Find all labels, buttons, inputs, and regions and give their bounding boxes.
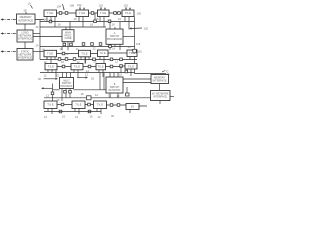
junction below BC	[64, 90, 67, 93]
memory interface block L1	[17, 14, 36, 24]
svg-text:NETWORK: NETWORK	[108, 89, 121, 92]
horizontal bus y72.5	[40, 72, 135, 74]
svg-text:20: 20	[91, 77, 94, 81]
wire B2 top stubs	[110, 73, 118, 78]
svg-text:TILE: TILE	[79, 11, 85, 15]
junction Jm1	[63, 43, 66, 46]
switch junction J1c	[91, 12, 94, 15]
tile T34	[127, 50, 137, 57]
junction below M2	[109, 45, 112, 48]
wire R2 right	[170, 96, 174, 98]
svg-text:12: 12	[44, 74, 47, 78]
svg-text:TILE: TILE	[47, 52, 53, 56]
horizontal bus y21.5	[40, 21, 135, 23]
switch processor block BC	[60, 78, 74, 89]
processor block M1	[62, 30, 74, 42]
wire off-chip left to L2	[1, 32, 18, 34]
svg-text:INTERFACE: INTERFACE	[153, 79, 167, 82]
junction Jr3c	[73, 58, 76, 61]
label 106 top	[70, 4, 75, 8]
bus junction c	[108, 20, 111, 23]
wire L2 right to M1	[33, 36, 62, 38]
wire row3 links	[57, 52, 128, 55]
tile T11	[44, 10, 57, 17]
io device block T64	[126, 104, 139, 110]
tile T61	[44, 101, 57, 109]
svg-text:TILE: TILE	[48, 65, 54, 69]
svg-text:18: 18	[81, 92, 84, 96]
label 24 left column	[36, 44, 39, 48]
junction Jr3d	[93, 58, 96, 61]
svg-text:26: 26	[36, 25, 39, 29]
svg-text:TILE: TILE	[47, 11, 53, 15]
svg-text:12: 12	[75, 115, 78, 119]
wire row4 links	[57, 65, 125, 68]
junction row6 c	[110, 104, 113, 107]
bottom bus y111.5	[44, 111, 101, 113]
bus junction a	[49, 20, 52, 23]
svg-text:INTERFACE: INTERFACE	[18, 57, 32, 60]
horizontal bus y46.5	[40, 46, 135, 48]
node 10 label top	[28, 2, 33, 9]
svg-text:102: 102	[124, 4, 129, 8]
junction right col J	[133, 49, 142, 53]
svg-text:16: 16	[90, 115, 93, 119]
wire BC top	[63, 73, 71, 78]
svg-text:100: 100	[137, 12, 142, 16]
svg-text:12: 12	[95, 93, 98, 97]
small box above T63	[87, 96, 92, 100]
tile T13	[98, 10, 110, 17]
junction below row6 a	[59, 110, 62, 113]
svg-text:16: 16	[44, 18, 47, 22]
tile T31	[44, 50, 57, 57]
svg-text:106: 106	[70, 4, 75, 8]
stubs row4 down	[48, 69, 131, 78]
svg-text:INTERFACE: INTERFACE	[18, 19, 33, 23]
wire L1 bottom to L2 top	[24, 24, 26, 30]
svg-text:12: 12	[46, 94, 49, 98]
load network interface block L2	[17, 30, 33, 42]
bus junction b	[94, 20, 97, 23]
label 100 right of T14	[137, 12, 142, 16]
svg-text:INTERFACE: INTERFACE	[18, 38, 32, 41]
io network interface block R2	[151, 91, 171, 101]
svg-text:28: 28	[24, 9, 27, 13]
switch junction J1a	[59, 12, 62, 15]
svg-text:72: 72	[166, 70, 169, 74]
wire row1 links	[57, 12, 123, 14]
svg-text:16: 16	[118, 17, 121, 21]
wire M2 right	[123, 36, 135, 38]
svg-text:16: 16	[74, 17, 77, 21]
svg-text:18: 18	[58, 23, 61, 27]
label 28 above L1	[24, 9, 27, 15]
svg-text:12: 12	[98, 115, 101, 119]
label 72 leader	[162, 70, 169, 74]
label 14 under M2	[128, 45, 131, 49]
label 104 top	[57, 5, 62, 9]
svg-text:30: 30	[38, 77, 41, 81]
arrow into bus from left	[41, 87, 53, 89]
junction Jr3e	[110, 58, 113, 61]
svg-text:TILE: TILE	[47, 103, 53, 107]
arrow into mesh top	[63, 4, 65, 10]
wire B2 bottom	[110, 93, 118, 98]
labels band y72-78	[44, 73, 123, 81]
horizontal bus y27	[40, 26, 106, 28]
horizontal bus y97.8	[44, 97, 151, 99]
stub above T13	[99, 4, 107, 11]
labels band y58-62	[44, 60, 119, 65]
svg-text:22: 22	[56, 74, 59, 78]
wires below M1	[64, 42, 72, 47]
labels band y47-50	[42, 47, 116, 52]
junction below BC b	[69, 90, 72, 93]
arrow label right edge y27	[129, 27, 148, 31]
wire L2 bottom to L3 top	[24, 42, 26, 49]
junction row6 b	[88, 103, 91, 106]
svg-text:TILE: TILE	[75, 103, 81, 107]
wires M2 bottom	[110, 44, 120, 50]
wire R1 R2	[159, 84, 161, 91]
junction below row6 b	[88, 110, 91, 113]
switch junction J1b	[65, 12, 68, 15]
svg-text:12: 12	[44, 115, 47, 119]
svg-text:18: 18	[112, 23, 115, 27]
svg-text:TILE: TILE	[125, 11, 131, 15]
switch processor block M2	[106, 29, 123, 44]
junction row3 mid	[62, 52, 69, 56]
junction Jr4d	[120, 65, 123, 68]
switch junction J1d	[114, 12, 117, 15]
svg-text:12: 12	[93, 47, 96, 51]
svg-text:14: 14	[112, 47, 115, 51]
wire M2 top stubs	[110, 22, 120, 30]
svg-text:INTERFACE: INTERFACE	[153, 96, 167, 99]
horizontal bus y89.8	[53, 89, 107, 91]
svg-text:118: 118	[136, 42, 141, 46]
labels bottom edge	[44, 114, 114, 119]
horizontal bus y59.5	[40, 59, 137, 61]
svg-text:PROCESSOR: PROCESSOR	[107, 38, 123, 41]
label 30 with arrow into BC	[38, 77, 58, 81]
svg-text:TILE: TILE	[81, 52, 87, 56]
junction row6 d	[117, 104, 120, 107]
svg-text:16: 16	[62, 115, 65, 119]
svg-text:102: 102	[99, 4, 104, 8]
arrow BC to B2	[77, 76, 88, 78]
label 26 left column	[36, 25, 39, 29]
svg-text:16: 16	[94, 60, 97, 64]
junction below T44	[125, 70, 128, 73]
wire off-chip left to L3	[1, 50, 18, 52]
labels band y93-100	[46, 92, 120, 102]
svg-text:TILE: TILE	[74, 65, 80, 69]
wire L2 right to mesh	[33, 33, 40, 35]
wire L3 right to mesh	[33, 51, 44, 53]
wire right bus y74 to label 70	[135, 72, 170, 76]
tile T33	[98, 50, 109, 57]
junction Jr3f	[120, 58, 123, 61]
svg-text:16: 16	[66, 52, 69, 56]
tile T43	[96, 64, 106, 70]
svg-text:TILE: TILE	[99, 51, 105, 55]
stub above T12	[77, 3, 85, 10]
wire off-chip left to L1	[1, 18, 17, 20]
svg-text:22: 22	[119, 73, 122, 77]
wire R2 bottom	[159, 101, 161, 105]
junction row6 a	[61, 103, 64, 106]
wire L1 right to mesh	[35, 20, 44, 60]
svg-text:12: 12	[85, 73, 88, 77]
junction Jr4a	[62, 65, 65, 68]
svg-text:116: 116	[138, 50, 143, 54]
tile T32	[79, 50, 91, 57]
svg-text:12: 12	[60, 47, 63, 51]
vertical line x52.5 down	[52, 84, 54, 102]
label 12 near T42	[86, 69, 89, 73]
wire extra verticals band A	[47, 13, 121, 90]
junction left BC	[51, 92, 54, 95]
tile T12	[76, 10, 89, 17]
svg-text:24: 24	[36, 44, 39, 48]
tile T14	[122, 10, 134, 17]
svg-text:PROCESS: PROCESS	[61, 85, 73, 88]
switch junction J1e	[118, 12, 121, 15]
io switch network block B2	[106, 77, 123, 93]
wire row6 links	[57, 105, 147, 107]
tile T62	[72, 101, 85, 109]
svg-text:10: 10	[28, 2, 31, 6]
svg-text:TILE: TILE	[97, 103, 103, 107]
tile T63	[94, 101, 107, 109]
svg-text:18: 18	[90, 23, 93, 27]
svg-text:16: 16	[61, 60, 64, 64]
stubs row6 down	[48, 109, 130, 115]
svg-text:TILE: TILE	[100, 11, 106, 15]
wire B2 right to R1 b	[123, 82, 151, 84]
wire BC bottom	[62, 89, 70, 102]
stubs row3 down	[47, 57, 130, 64]
junction Jr4c	[110, 65, 113, 68]
label 118 right	[136, 42, 141, 46]
stub above T14	[124, 4, 132, 11]
junction Jr3a	[58, 58, 61, 61]
memory interface block R1	[151, 75, 169, 84]
junction Jm4	[91, 43, 94, 46]
tile T42	[71, 64, 83, 70]
svg-text:TILE: TILE	[97, 65, 103, 69]
svg-text:CORE: CORE	[65, 37, 72, 40]
svg-text:TILE: TILE	[128, 65, 134, 69]
junction Jr3b	[65, 58, 68, 61]
labels between row1 and row2	[44, 17, 122, 27]
wire B2 right to R1 a	[123, 78, 151, 80]
tile T41	[45, 64, 57, 70]
svg-text:16: 16	[96, 17, 99, 21]
wire M1 top	[66, 22, 70, 30]
junction Jm2	[70, 43, 73, 46]
svg-text:I/O: I/O	[131, 106, 134, 109]
tile column stubs row1 down	[47, 17, 135, 74]
svg-text:120: 120	[144, 27, 149, 31]
junction Jr4b	[88, 65, 91, 68]
junction Jm3	[82, 43, 85, 46]
junction below B2	[126, 87, 130, 96]
static network block L3	[17, 49, 33, 61]
tile T44	[125, 64, 137, 70]
svg-text:12: 12	[86, 69, 89, 73]
svg-text:14: 14	[128, 45, 131, 49]
svg-text:30: 30	[111, 114, 114, 118]
svg-text:104: 104	[57, 5, 62, 9]
svg-text:102: 102	[77, 3, 82, 7]
svg-text:12: 12	[115, 60, 118, 64]
junction Jm5	[99, 43, 102, 46]
